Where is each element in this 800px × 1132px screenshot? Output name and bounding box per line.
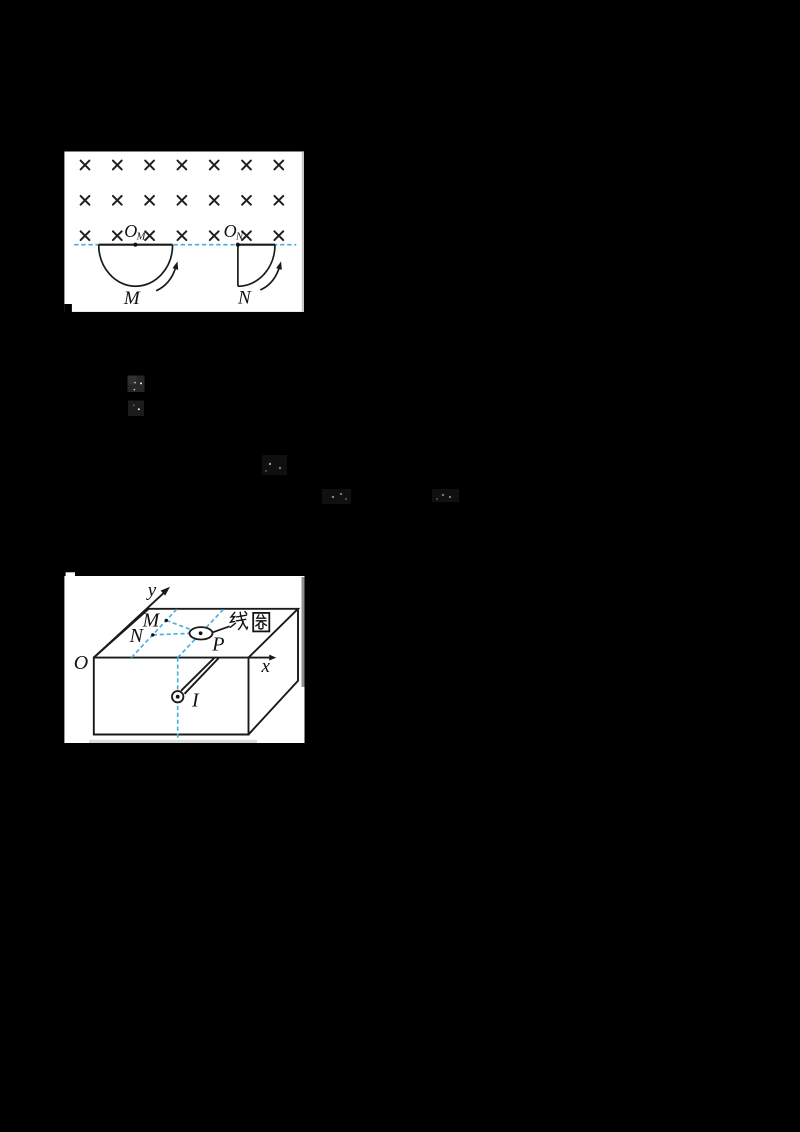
svg-text:M: M [136,231,147,242]
svg-text:N: N [129,625,145,647]
svg-text:O: O [124,221,137,241]
dashed line M to coil (cyan) [166,620,190,629]
figure 1 bottom-left black notch [64,304,72,312]
faint formula remnant 2 [128,401,144,417]
point M dot [165,619,168,622]
label O_N [224,221,244,242]
faint formula remnant 1 (T over 2) [128,376,145,393]
y axis (extension of left top edge) with arrowhead [94,587,170,658]
pivot dot O_N [236,243,240,247]
dashed line A through M and N (y-direction, cyan) [131,609,177,658]
svg-text:M: M [142,610,161,632]
svg-text:O: O [74,652,88,674]
svg-text:N: N [237,288,252,309]
leader line from coil to caption [212,626,229,632]
quarter-circle loop N [238,245,275,287]
semicircle loop M (diameter on boundary) [99,245,173,287]
dashed boundary line of field region (cyan) [74,244,296,246]
figure 1 white background panel [64,152,304,312]
faint formula remnant 4 [322,489,351,504]
cuboid right face edges [249,609,299,735]
cuboid front face edges [94,658,249,735]
point N dot [151,633,154,636]
svg-text:x: x [261,656,271,677]
dashed vertical line on front face below P (cyan) [177,658,179,739]
dashed line B through coil P (y-direction, cyan) [178,609,224,658]
caption 线圈 (coil), hand-drawn strokes [230,612,269,632]
x axis with arrowhead [249,655,277,661]
figure 2 white background panel [64,572,304,743]
rotation arrow near M [156,261,178,290]
magnetic field crosses (B into page), 7 cols x 3 rows [81,161,284,241]
faint formula remnant 5 [432,489,459,502]
label O_M [124,221,146,242]
current rod (two parallel lines) [181,658,219,694]
svg-text:O: O [224,221,237,241]
faint formula remnant 3 [262,455,287,475]
svg-text:I: I [191,690,200,712]
svg-text:M: M [123,288,141,309]
pivot dot O_M [133,243,137,247]
current symbol (circle-dot, current out of page) [172,691,183,702]
dashed line N to coil (cyan) [153,633,190,635]
rotation arrow near N [260,261,282,290]
cuboid top face edges [94,609,298,658]
svg-text:P: P [211,633,224,655]
svg-text:N: N [235,232,244,243]
coil ellipse at P [190,627,213,639]
svg-text:y: y [146,580,157,601]
